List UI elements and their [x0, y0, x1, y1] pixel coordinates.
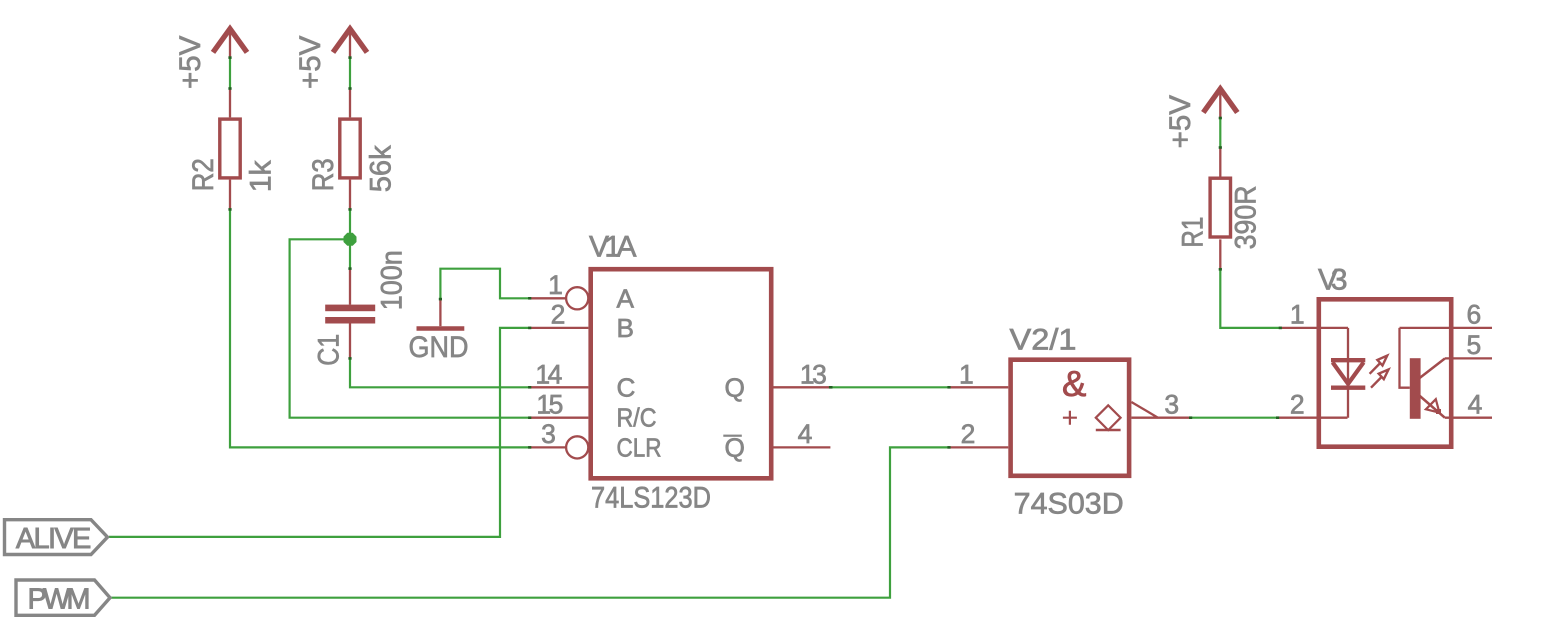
svg-text:+5V: +5V — [174, 35, 207, 89]
svg-text:4: 4 — [1468, 390, 1482, 420]
svg-text:2: 2 — [551, 300, 565, 330]
svg-text:100n: 100n — [376, 250, 409, 310]
svg-text:ALIVE: ALIVE — [16, 523, 92, 555]
svg-text:C: C — [617, 372, 636, 402]
svg-text:5: 5 — [1467, 330, 1481, 360]
svg-text:C1: C1 — [313, 334, 346, 366]
svg-text:V1A: V1A — [589, 230, 637, 263]
svg-text:3: 3 — [1164, 390, 1178, 420]
svg-text:R/C: R/C — [617, 403, 657, 433]
svg-text:R3: R3 — [307, 158, 340, 191]
svg-text:B: B — [617, 313, 634, 343]
svg-text:56k: 56k — [365, 145, 398, 192]
svg-text:14: 14 — [535, 359, 561, 389]
svg-text:V2/1: V2/1 — [1010, 324, 1077, 357]
svg-text:R1: R1 — [1177, 217, 1210, 248]
svg-text:1: 1 — [1290, 300, 1304, 330]
svg-text:2: 2 — [961, 419, 975, 449]
svg-text:3: 3 — [541, 419, 555, 449]
svg-text:74S03D: 74S03D — [1014, 488, 1124, 521]
svg-text:Q: Q — [725, 432, 745, 462]
svg-text:13: 13 — [800, 359, 826, 389]
svg-text:74LS123D: 74LS123D — [591, 481, 711, 514]
svg-text:4: 4 — [798, 419, 812, 449]
svg-text:R2: R2 — [187, 158, 220, 191]
svg-text:1: 1 — [548, 270, 562, 300]
svg-text:A: A — [617, 283, 635, 313]
svg-text:&: & — [1062, 363, 1086, 404]
svg-text:6: 6 — [1467, 300, 1481, 330]
svg-text:15: 15 — [536, 389, 562, 419]
svg-text:+5V: +5V — [294, 35, 327, 89]
svg-text:1k: 1k — [245, 160, 278, 192]
svg-text:Q: Q — [725, 372, 745, 402]
svg-text:2: 2 — [1290, 390, 1304, 420]
svg-text:PWM: PWM — [28, 583, 91, 615]
svg-text:GND: GND — [409, 331, 469, 364]
svg-text:+5V: +5V — [1164, 95, 1197, 149]
svg-text:CLR: CLR — [617, 432, 662, 462]
svg-text:1: 1 — [959, 359, 973, 389]
svg-text:390R: 390R — [1230, 185, 1263, 249]
svg-text:V3: V3 — [1318, 264, 1348, 297]
